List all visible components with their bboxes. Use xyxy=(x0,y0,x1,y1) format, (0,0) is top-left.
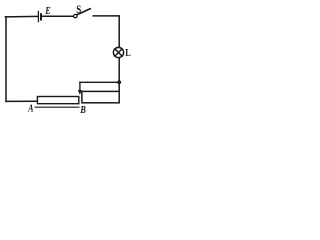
rheostat left box xyxy=(37,97,78,104)
lamp L circle xyxy=(113,47,123,57)
svg-text:L: L xyxy=(125,48,131,59)
slider arrow shaft xyxy=(79,82,81,90)
battery E short plate xyxy=(40,14,42,19)
wire top-left to battery xyxy=(5,15,37,18)
svg-text:S: S xyxy=(76,4,81,16)
rheostat right box xyxy=(82,91,119,102)
wire left vertical xyxy=(5,17,7,102)
wire slider horizontal xyxy=(80,81,119,83)
wire bottom-left xyxy=(6,100,37,102)
section A-B underline xyxy=(35,106,79,108)
lamp L cross stroke 2 xyxy=(115,49,122,56)
wire battery to switch xyxy=(42,15,73,17)
battery E long plate xyxy=(37,12,39,22)
junction dot xyxy=(117,80,121,84)
wire switch to top-right corner xyxy=(93,15,119,17)
switch S lever xyxy=(77,9,90,15)
switch S pivot circle xyxy=(74,14,77,17)
svg-text:A: A xyxy=(28,104,34,115)
wire right vertical upper xyxy=(118,16,120,47)
wire lamp to rheostat right edge xyxy=(118,58,120,92)
svg-text:E: E xyxy=(45,5,51,17)
lamp L cross stroke 1 xyxy=(115,49,122,56)
svg-text:B: B xyxy=(79,105,85,116)
slider arrowhead xyxy=(78,90,82,95)
